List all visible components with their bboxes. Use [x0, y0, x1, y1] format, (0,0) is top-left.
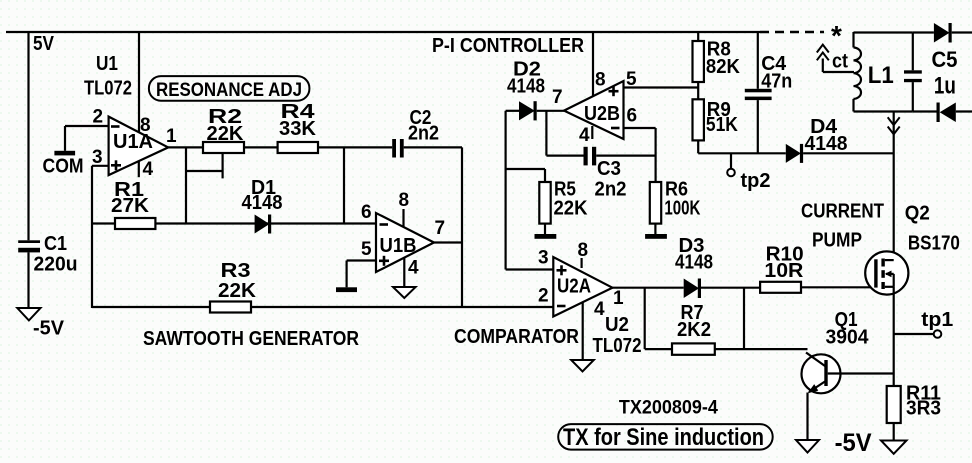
svg-text:-5V: -5V [835, 429, 872, 457]
ground COM bar at U1A [54, 151, 75, 156]
svg-text:4: 4 [594, 299, 605, 320]
svg-text:SAWTOOTH GENERATOR: SAWTOOTH GENERATOR [143, 327, 359, 350]
svg-text:5V: 5V [33, 32, 54, 55]
svg-text:10R: 10R [764, 259, 803, 282]
svg-text:*: * [831, 20, 842, 51]
capacitor C4 with wires [745, 32, 772, 153]
wire U1A pin8 supply from rail [138, 32, 140, 133]
svg-text:BS170: BS170 [908, 232, 960, 255]
pin 4 stub U2B [591, 126, 593, 139]
diode D4 [786, 144, 894, 163]
resistor R4 [278, 142, 318, 153]
minus sign U1A [111, 125, 120, 128]
svg-text:22K: 22K [218, 279, 256, 302]
pin 4 stub U1A [138, 161, 140, 177]
svg-text:ct: ct [832, 50, 848, 73]
node ct tap arrow chevrons [817, 45, 854, 72]
svg-text:PUMP: PUMP [812, 229, 862, 252]
wire left vertical from 5V rail to C1 [27, 32, 29, 240]
pin 8 wire U2B from 5V rail [592, 32, 594, 96]
svg-text:1: 1 [613, 288, 624, 309]
plus sign U1A [111, 160, 121, 170]
svg-text:22K: 22K [554, 197, 588, 220]
resistor R1 [115, 218, 155, 229]
svg-text:TL072: TL072 [593, 334, 642, 357]
label RESONANCE ADJ box [149, 76, 310, 101]
wire U1A output [168, 146, 203, 148]
wire R1 left [92, 222, 115, 224]
capacitor C3 with feedback wires [546, 111, 655, 166]
plus sign U2B [609, 86, 619, 96]
pin 4 stub and ground arrow U2A [571, 302, 594, 371]
svg-text:3R3: 3R3 [906, 397, 941, 420]
svg-text:U2: U2 [605, 313, 629, 336]
wire dashed 5V rail extension [760, 31, 824, 33]
resistor R5 with wires [506, 169, 551, 234]
svg-text:4148: 4148 [805, 132, 848, 155]
svg-text:Q2: Q2 [905, 202, 930, 225]
svg-text:2n2: 2n2 [595, 178, 627, 201]
diode bottom right (pointing left) [913, 103, 972, 123]
wire U1B output [434, 241, 462, 243]
svg-text:TL072: TL072 [84, 77, 132, 100]
minus sign U1B [380, 223, 389, 226]
svg-text:51K: 51K [706, 113, 738, 136]
svg-text:U1B: U1B [380, 234, 417, 257]
svg-text:3: 3 [92, 147, 103, 168]
svg-text:47n: 47n [761, 70, 792, 93]
svg-text:6: 6 [627, 106, 638, 127]
resistor R8 with stub from rail [693, 32, 704, 99]
ground COM bar at R5 [535, 234, 557, 239]
pin 8 stub U1B [402, 209, 404, 227]
svg-text:CURRENT: CURRENT [801, 200, 884, 223]
resistor R3 [210, 302, 251, 313]
pin 8 stub U2A [580, 258, 582, 268]
svg-text:U1: U1 [96, 52, 118, 75]
plus sign U2A [557, 265, 567, 275]
svg-text:2: 2 [538, 286, 549, 307]
wire R10 to Q2 gate [801, 286, 876, 288]
wire R2 to R4 [244, 146, 278, 148]
wire 5V top rail [6, 31, 760, 33]
pin 4 stub and ground arrow U1B [393, 258, 416, 298]
svg-text:tp2: tp2 [741, 169, 771, 192]
wire L1 bottom to Q2 drain with chevrons [888, 112, 900, 261]
svg-text:tp1: tp1 [921, 308, 953, 331]
test point tp2 [727, 153, 735, 176]
resistor R7 [672, 343, 715, 354]
svg-text:C5: C5 [932, 47, 958, 72]
ground arrow under R11 [881, 441, 907, 454]
wire R2 wiper tap [186, 153, 223, 178]
svg-text:22K: 22K [207, 122, 244, 145]
op-amp U1A [109, 117, 169, 176]
minus sign U2A [557, 305, 566, 308]
wire D4 anode line from R9 bottom [698, 152, 786, 154]
wire U2B pin5 to R8 R9 junction [624, 86, 699, 88]
diode D2 [506, 101, 564, 120]
resistor R6 with wires [650, 182, 661, 234]
svg-text:COMPARATOR: COMPARATOR [454, 325, 579, 348]
svg-text:2: 2 [93, 107, 104, 128]
svg-text:L1: L1 [868, 62, 894, 89]
resistor R9 [693, 99, 704, 153]
svg-text:27K: 27K [111, 194, 149, 217]
wire Q2 source down to R11 [893, 287, 895, 386]
diode D1 [255, 215, 272, 234]
ground COM bar at R6 [645, 234, 667, 239]
ground COM bar at U1B [336, 287, 357, 292]
resistor R2 [203, 142, 244, 153]
svg-text:COM: COM [43, 155, 84, 178]
svg-text:3904: 3904 [826, 326, 870, 349]
svg-text:8: 8 [595, 70, 606, 91]
svg-text:4148: 4148 [507, 75, 545, 98]
svg-text:RESONANCE ADJ: RESONANCE ADJ [156, 79, 302, 101]
svg-text:P-I CONTROLLER: P-I CONTROLLER [432, 34, 584, 57]
op-amp U2B (left pointing) [564, 81, 624, 139]
transistor Q2 MOSFET [865, 251, 908, 294]
transistor Q1 [802, 353, 894, 441]
op-amp U1B [376, 213, 434, 272]
wire R7 left branch [645, 288, 672, 349]
wire R1 right to D1 to U1B pin6 [155, 222, 376, 224]
svg-text:220u: 220u [34, 253, 78, 276]
capacitor C5 [904, 70, 922, 82]
svg-text:2K2: 2K2 [677, 318, 711, 341]
svg-text:-5V: -5V [33, 317, 64, 340]
svg-text:4148: 4148 [242, 191, 283, 214]
svg-text:7: 7 [435, 218, 446, 239]
resistor R11 [887, 386, 901, 441]
capacitor C2 [392, 139, 462, 158]
capacitor C1 [18, 240, 40, 308]
diode D3 [612, 279, 760, 299]
svg-text:4: 4 [408, 258, 419, 279]
test point tp1 [894, 330, 942, 338]
svg-text:1u: 1u [934, 73, 956, 100]
svg-text:5: 5 [361, 239, 372, 260]
svg-text:U2B: U2B [584, 102, 620, 125]
wire C2 right down to U1B output node [461, 147, 463, 308]
svg-text:2n2: 2n2 [408, 122, 439, 145]
wire bottom rail [92, 306, 553, 308]
svg-text:1: 1 [166, 126, 177, 147]
plus sign U1B [379, 256, 389, 266]
svg-text:7: 7 [552, 87, 563, 108]
ground -5V arrow left [17, 308, 40, 320]
label CURRENT PUMP [801, 200, 884, 252]
resistor R10 [760, 282, 801, 293]
wire junction x344 down to pin6 line [343, 147, 345, 223]
wire U1B pin5 to COM [347, 261, 376, 288]
svg-text:100K: 100K [664, 197, 700, 220]
svg-text:TX200809-4: TX200809-4 [619, 398, 718, 419]
svg-text:82K: 82K [706, 55, 740, 78]
label TX for Sine induction box [558, 424, 773, 451]
wire U1A pin3 left and down to bottom rail [92, 166, 109, 308]
svg-text:33K: 33K [279, 117, 316, 140]
op-amp U2A [553, 257, 612, 317]
svg-text:4148: 4148 [675, 251, 713, 274]
svg-text:U2A: U2A [557, 275, 591, 298]
svg-text:8: 8 [399, 190, 410, 211]
svg-text:TX for Sine induction: TX for Sine induction [563, 424, 764, 451]
svg-text:4: 4 [579, 125, 590, 146]
inductor L1 [854, 32, 913, 112]
svg-text:4: 4 [143, 159, 154, 180]
wire R4 to junction x344 [318, 146, 392, 148]
minus sign U2B [611, 127, 620, 130]
wire U2A pin3 node up to D2 anode [506, 111, 554, 270]
wire U1A pin2 to COM [65, 126, 109, 151]
svg-text:U1A: U1A [113, 130, 153, 153]
svg-text:6: 6 [361, 202, 372, 223]
wire U2B pin6 down to C3 right and R6 [624, 128, 656, 182]
svg-text:3: 3 [538, 248, 549, 269]
ground arrow under Q1 [796, 440, 819, 453]
svg-text:8: 8 [578, 240, 589, 261]
wire feedback vertical at x186 [185, 147, 187, 223]
wire R7 right branch to Q1 collector [715, 288, 808, 349]
diode top right [913, 23, 972, 43]
